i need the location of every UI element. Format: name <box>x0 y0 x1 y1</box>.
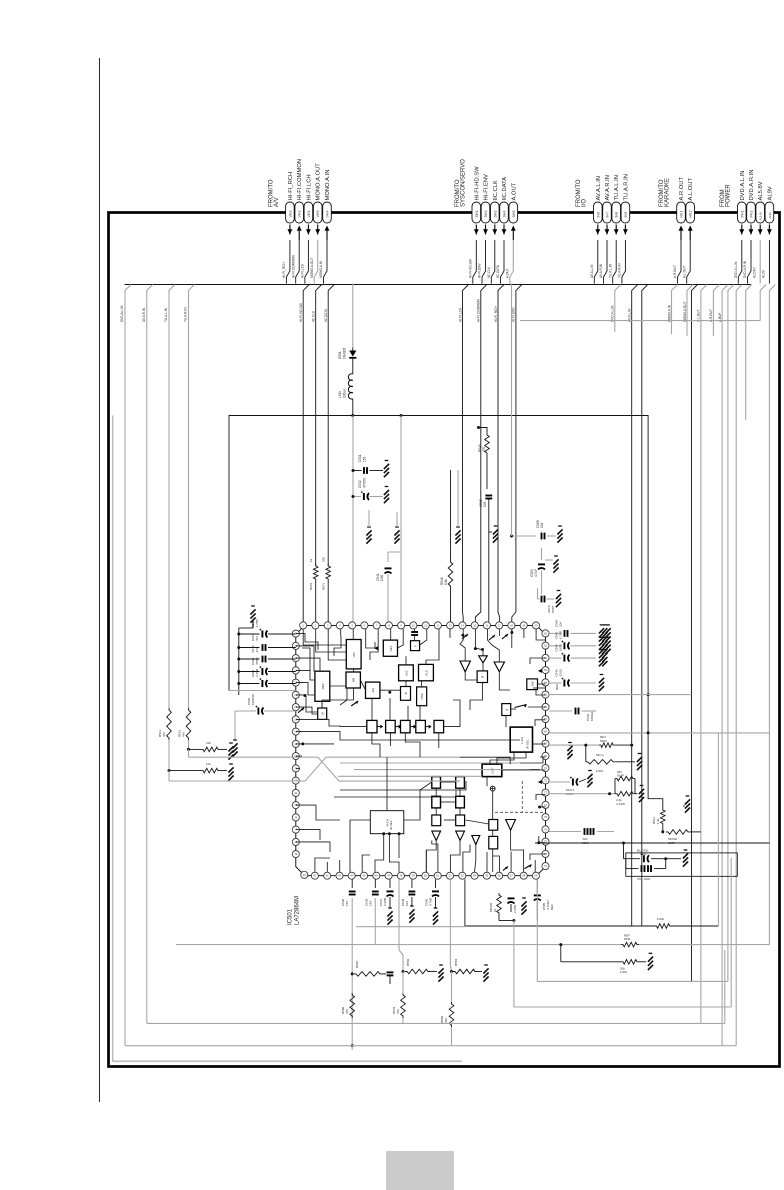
svg-text:DET: DET <box>389 645 393 651</box>
svg-text:50: 50 <box>424 874 427 878</box>
wire <box>268 671 296 673</box>
svg-text:1/2W: 1/2W <box>596 769 603 773</box>
wire <box>315 581 317 622</box>
block OUT SEL <box>482 764 502 777</box>
wire vertical feed <box>238 628 240 695</box>
wire B+ rail <box>535 842 769 844</box>
svg-text:AL9V: AL9V <box>762 269 766 278</box>
wire TU.A.R.IN <box>189 285 195 709</box>
wire <box>125 1045 736 1047</box>
pin arrow <box>538 780 542 784</box>
svg-text:67: 67 <box>544 717 547 721</box>
wire <box>549 744 599 746</box>
resistor R518 20k <box>621 960 639 965</box>
svg-text:F: F <box>413 645 417 647</box>
wire arrow <box>425 725 431 729</box>
svg-text:473: 473 <box>255 647 259 652</box>
wire <box>353 470 362 472</box>
wire AV.A.L.IN <box>632 285 638 927</box>
wire <box>536 879 538 981</box>
svg-text:IH7: IH7 <box>606 212 610 218</box>
svg-text:REC: REC <box>321 682 325 689</box>
capacitor C552 pair <box>642 865 645 872</box>
ground <box>637 754 642 771</box>
svg-text:IIC.CLK: IIC.CLK <box>487 266 491 278</box>
wire <box>639 961 646 963</box>
wire <box>634 779 636 794</box>
svg-text:AL5.8V: AL5.8V <box>752 267 756 278</box>
capacitor C520 47/50 <box>259 666 267 675</box>
wire A.BUF <box>722 285 728 1046</box>
wire <box>239 647 260 649</box>
wire <box>411 897 413 906</box>
capacitor C507 22/16 <box>542 596 545 603</box>
connector pin VH1 <box>304 202 313 223</box>
switch <box>525 865 532 869</box>
svg-text:A.OUT: A.OUT <box>511 182 517 200</box>
block SW1 <box>527 679 538 690</box>
svg-text:104: 104 <box>405 901 409 906</box>
wire A.L.OUT to bus <box>687 240 691 284</box>
wire TU.A.L.IN <box>169 285 175 709</box>
svg-text:19: 19 <box>522 623 525 627</box>
wire crossing <box>296 757 460 781</box>
block OSC <box>417 687 427 706</box>
svg-text:71: 71 <box>544 766 547 770</box>
resistor R525 2.2k <box>615 791 635 796</box>
connector pin PH2 <box>747 202 756 223</box>
svg-text:VH5: VH5 <box>316 211 320 218</box>
connector pin SH3 <box>491 202 500 223</box>
wire DVD.A.L.IN <box>125 285 131 1046</box>
wire <box>396 512 398 527</box>
capacitor C521 4.7/50 <box>259 678 267 687</box>
wire <box>547 598 555 600</box>
svg-text:4.7uF: 4.7uF <box>534 569 538 577</box>
node junction <box>630 744 633 747</box>
capacitor C540 4.7/50 <box>432 891 439 896</box>
wire <box>571 657 597 659</box>
wire <box>352 284 354 348</box>
capacitor C546 4.7/50 <box>561 640 569 649</box>
svg-text:61: 61 <box>544 644 547 648</box>
wire IIC.DATA to bus <box>501 240 505 284</box>
resistor R512b 56k 600P <box>666 830 690 835</box>
node junction <box>351 972 354 975</box>
svg-text:76: 76 <box>544 827 547 831</box>
node junction <box>237 658 240 661</box>
node junction <box>237 682 240 685</box>
svg-text:HI-FI.ENV: HI-FI.ENV <box>512 307 516 322</box>
svg-text:47/35V: 47/35V <box>363 477 367 488</box>
wire A.R.OUT to bus <box>678 240 682 284</box>
svg-text:R571: R571 <box>322 582 326 590</box>
wire <box>623 843 625 859</box>
ground <box>493 526 498 543</box>
node junction <box>538 806 541 809</box>
direction arrow AL9V <box>767 225 772 235</box>
svg-text:63: 63 <box>544 668 547 672</box>
svg-text:IIC.DATA: IIC.DATA <box>496 264 500 278</box>
svg-text:39: 39 <box>294 852 297 856</box>
svg-text:47/50: 47/50 <box>255 657 259 665</box>
svg-text:104: 104 <box>559 622 563 627</box>
wire IIC.DATA <box>328 285 334 567</box>
wire <box>451 972 453 1003</box>
wire MONO.A.OUT to bus <box>314 240 318 284</box>
ground cluster <box>599 625 604 642</box>
svg-text:1/4W: 1/4W <box>620 970 627 974</box>
capacitor C548 4.7/50 <box>570 777 578 786</box>
wire DVD.A.L.IN <box>615 285 621 333</box>
direction arrow HK1 <box>679 226 684 231</box>
svg-text:IH6: IH6 <box>596 212 600 218</box>
wire <box>188 740 190 749</box>
wire A.L.OUT <box>701 285 707 1024</box>
wire HI-FI_RCH <box>498 285 504 622</box>
wire <box>451 1027 453 1046</box>
svg-text:IC501: IC501 <box>288 908 294 925</box>
svg-text:HI-FI_RCH: HI-FI_RCH <box>494 306 498 322</box>
svg-text:4.7/50: 4.7/50 <box>255 619 259 628</box>
wire <box>549 657 562 659</box>
wire A.R.OUT <box>713 285 719 337</box>
svg-text:48: 48 <box>399 874 402 878</box>
svg-text:R581: R581 <box>355 960 359 968</box>
wire <box>488 499 490 622</box>
wire <box>498 915 500 921</box>
wire <box>387 574 389 622</box>
svg-text:C512: C512 <box>358 480 362 488</box>
bus line (signal rail) <box>125 284 752 286</box>
direction arrow VH3 <box>288 225 293 235</box>
svg-text:54: 54 <box>473 874 476 878</box>
wire AV.A.L.IN to bus <box>594 240 598 284</box>
wire <box>549 831 581 833</box>
buffer triangle <box>506 820 516 831</box>
svg-text:HI-FI.COMMON: HI-FI.COMMON <box>297 159 303 201</box>
svg-text:4.1SW: 4.1SW <box>616 802 625 806</box>
direction arrow VH5 <box>315 225 320 235</box>
svg-text:100uH: 100uH <box>343 388 347 398</box>
wire MONO.A.IN to bus <box>324 240 328 284</box>
svg-text:10: 10 <box>412 623 415 627</box>
wire <box>464 879 466 926</box>
capacitor C536 154 <box>372 892 379 895</box>
wire <box>351 898 353 1046</box>
svg-text:AL9V: AL9V <box>767 186 773 200</box>
wire mask <box>621 941 639 948</box>
wire net <box>728 285 734 982</box>
wire <box>449 879 451 965</box>
block REC SW <box>315 671 330 701</box>
node junction <box>608 792 611 795</box>
svg-text:47k: 47k <box>345 1009 349 1014</box>
wire long gray <box>549 732 769 734</box>
capacitor C545 104 <box>565 630 568 637</box>
wire <box>549 710 572 712</box>
svg-text:HI-FI-HD.SW: HI-FI-HD.SW <box>299 303 303 322</box>
svg-text:A.OUT: A.OUT <box>506 268 510 278</box>
svg-text:HI-FI_RCH: HI-FI_RCH <box>282 262 286 278</box>
wire <box>239 658 260 660</box>
svg-text:DVD.A.R.IN: DVD.A.R.IN <box>743 260 747 278</box>
svg-text:36: 36 <box>294 815 297 819</box>
wire <box>717 733 719 926</box>
capacitor C530 154 <box>349 892 356 895</box>
wire <box>477 971 482 973</box>
svg-text:43k: 43k <box>444 1018 448 1023</box>
svg-text:1k: 1k <box>309 558 313 562</box>
resistor R524 MD 814P <box>615 776 635 781</box>
svg-text:SH4: SH4 <box>503 211 507 218</box>
block FIL <box>411 641 420 651</box>
svg-text:4.7/50: 4.7/50 <box>255 668 259 677</box>
direction arrow IH8 <box>614 225 619 235</box>
svg-text:74: 74 <box>544 803 547 807</box>
dashed control line <box>495 811 546 813</box>
wire <box>435 897 437 908</box>
svg-text:DVD.A.L.IN: DVD.A.L.IN <box>120 305 124 322</box>
node junction <box>622 842 625 845</box>
wire step to R511 <box>648 733 663 808</box>
wire <box>402 972 404 994</box>
svg-text:103: 103 <box>483 501 487 507</box>
wire MONO.A.OUT <box>687 285 693 337</box>
wire <box>268 683 296 685</box>
IC501 pins (80 circles) <box>292 622 549 879</box>
direction arrow IH7 <box>605 225 610 235</box>
svg-text:11: 11 <box>424 623 427 627</box>
direction arrow SH1 <box>474 225 479 235</box>
ground <box>567 743 572 760</box>
svg-text:R582: R582 <box>406 958 410 966</box>
wire net <box>769 285 775 945</box>
switch <box>462 634 468 639</box>
svg-text:1/2W: 1/2W <box>657 917 664 921</box>
svg-text:VH4: VH4 <box>326 211 330 218</box>
capacitor C512 47/35V <box>361 491 369 500</box>
wire AV.A.R.IN to bus <box>604 240 608 284</box>
dashed control line <box>521 781 523 813</box>
svg-text:IN SEL: IN SEL <box>526 739 530 749</box>
direction arrow SH3 <box>492 225 497 235</box>
svg-text:44: 44 <box>350 874 353 878</box>
svg-text:16/25: 16/25 <box>559 644 563 652</box>
connector pin AL9V <box>765 202 774 223</box>
op-amp T3 <box>494 662 504 672</box>
ground <box>232 740 237 757</box>
svg-text:D501: D501 <box>338 351 342 359</box>
block R amp <box>456 815 465 826</box>
svg-text:IIC.CLK: IIC.CLK <box>312 310 316 322</box>
pin arrow <box>374 646 378 650</box>
resistor R512 47k <box>167 708 172 740</box>
block stage 1 <box>367 720 377 732</box>
wire <box>374 879 376 888</box>
svg-text:HI-FI-HD.SW: HI-FI-HD.SW <box>474 166 480 201</box>
svg-text:B: B <box>481 676 485 678</box>
wire <box>234 711 236 740</box>
svg-text:57: 57 <box>510 874 513 878</box>
wire <box>169 770 201 772</box>
svg-text:46: 46 <box>375 874 378 878</box>
wire AL5.8V <box>759 240 761 284</box>
direction arrow SH5 <box>511 226 516 231</box>
wire <box>370 496 384 498</box>
wire <box>235 710 256 712</box>
connector pin VH5 <box>313 202 322 223</box>
svg-text:1.2k: 1.2k <box>656 818 660 824</box>
svg-text:75: 75 <box>544 815 547 819</box>
wire <box>615 761 635 763</box>
svg-text:IIC.DATA: IIC.DATA <box>502 177 508 201</box>
node junction <box>450 970 453 973</box>
svg-text:VH2: VH2 <box>298 211 302 218</box>
switch <box>489 635 495 640</box>
block a <box>489 820 498 831</box>
wire HI-FI.COMMON <box>475 285 486 622</box>
svg-text:R584: R584 <box>454 958 458 966</box>
svg-text:154: 154 <box>368 901 372 906</box>
wire <box>560 945 562 962</box>
wire net <box>642 285 648 927</box>
wire <box>537 980 728 982</box>
svg-text:C51 JJR2: C51 JJR2 <box>637 877 651 881</box>
svg-text:TU.A.L.IN: TU.A.L.IN <box>614 175 620 200</box>
svg-text:47k: 47k <box>396 1009 400 1014</box>
svg-text:DVD.A.L.IN: DVD.A.L.IN <box>611 305 615 322</box>
svg-text:1/50: 1/50 <box>380 575 384 581</box>
wire <box>579 779 586 782</box>
ground <box>587 771 592 788</box>
capacitor C537 2.2/50 <box>387 891 394 896</box>
buffer R triangle <box>456 831 465 840</box>
wire <box>353 496 361 498</box>
wire <box>239 627 253 629</box>
svg-text:52: 52 <box>449 874 452 878</box>
page edge cut line <box>99 58 101 1102</box>
capacitor C505 4.7/35V <box>534 895 541 900</box>
svg-text:14: 14 <box>461 623 464 627</box>
node junction <box>351 1044 354 1047</box>
svg-text:DVD.A.L.IN: DVD.A.L.IN <box>734 261 738 278</box>
ground <box>557 526 562 543</box>
wire crossing <box>296 757 460 781</box>
svg-text:R570: R570 <box>309 582 313 590</box>
svg-text:OSC: OSC <box>420 692 424 699</box>
direction arrow IH6 <box>595 225 600 235</box>
wire HI-FI.LCH <box>463 285 469 622</box>
wire long gray <box>188 749 190 757</box>
wire <box>536 879 538 893</box>
wire <box>220 770 227 772</box>
connector pin IH6 <box>594 202 603 223</box>
ground <box>384 487 389 504</box>
capacitor C504 2.2/50 <box>508 898 515 903</box>
wire <box>585 745 587 762</box>
diode D501 <box>349 348 356 358</box>
svg-text:POWER: POWER <box>726 184 732 207</box>
resistor R514 10k <box>201 747 220 752</box>
node junction <box>584 744 587 747</box>
svg-text:47k: 47k <box>182 732 186 737</box>
switch <box>351 701 358 706</box>
wire <box>486 455 488 489</box>
wire <box>547 535 556 537</box>
capacitor C509 4.7uF <box>538 564 545 569</box>
ground <box>228 764 233 781</box>
wire net <box>746 285 752 421</box>
wire net <box>692 285 698 982</box>
wire <box>571 632 597 634</box>
svg-text:470: 470 <box>482 446 486 452</box>
svg-text:72: 72 <box>544 778 547 782</box>
svg-text:PH1: PH1 <box>740 211 744 218</box>
svg-text:DVD.A.R.IN: DVD.A.R.IN <box>749 170 755 201</box>
wire TU.A.L.IN to bus <box>613 240 617 284</box>
wire <box>683 805 685 807</box>
node junction <box>477 426 480 429</box>
svg-text:154: 154 <box>345 901 349 906</box>
block SS DET <box>383 640 397 656</box>
block BIAS <box>401 687 411 701</box>
svg-text:160Z: 160Z <box>640 852 647 856</box>
node junction <box>237 646 240 649</box>
wire DVD.A.R.IN to bus <box>748 240 752 284</box>
svg-text:104: 104 <box>540 522 544 528</box>
direction arrow AL5.8V <box>758 225 763 235</box>
wire <box>264 710 296 712</box>
wire <box>541 548 543 560</box>
wire <box>239 683 260 685</box>
wire <box>340 762 520 764</box>
wire <box>351 1046 353 1050</box>
svg-text:HI-FI_RCH: HI-FI_RCH <box>288 172 294 201</box>
wire <box>571 682 597 684</box>
wire <box>382 973 386 975</box>
svg-text:HK2: HK2 <box>689 211 693 218</box>
wire <box>239 633 260 635</box>
wire <box>549 781 570 783</box>
capacitor pair C549 <box>585 828 588 835</box>
svg-text:18: 18 <box>510 623 513 627</box>
wire <box>370 470 384 472</box>
wire <box>690 831 701 833</box>
svg-text:SH2: SH2 <box>484 211 488 218</box>
wire <box>352 399 354 416</box>
wire <box>268 647 296 649</box>
capacitor C519 473 <box>263 656 266 663</box>
node junction <box>647 693 650 696</box>
wire <box>327 581 329 622</box>
wire <box>514 1006 731 1008</box>
wire <box>168 740 170 771</box>
svg-text:MD G: MD G <box>596 753 604 757</box>
direction arrow VH1 <box>306 225 311 235</box>
connector pin SH1 <box>472 202 481 223</box>
op-amp IC501 body outline <box>296 625 546 875</box>
capacitor C551 4700/16 <box>641 853 649 862</box>
connector pin AL5.8V <box>756 202 765 223</box>
svg-text:56: 56 <box>498 874 501 878</box>
resistor R515 10k <box>201 768 220 773</box>
svg-text:DVD.A.L.IN: DVD.A.L.IN <box>740 171 746 201</box>
svg-text:I/O: I/O <box>582 199 588 207</box>
direction arrow PH1 <box>739 225 744 235</box>
capacitor C541 1/50 <box>385 568 392 573</box>
block stage 3 <box>401 720 411 732</box>
